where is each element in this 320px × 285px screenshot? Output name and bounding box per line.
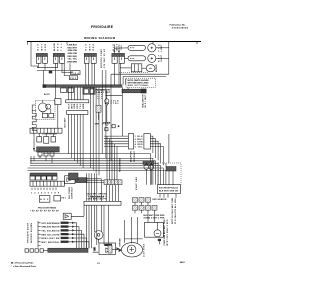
svg-text:0403: 0403 — [180, 261, 186, 264]
svg-text:ARE OPTIONAL: ARE OPTIONAL — [128, 84, 150, 87]
strip drop 5 — [96, 205, 98, 245]
heater plug small — [96, 105, 101, 112]
ice fan motor — [94, 231, 103, 240]
freezer light holder — [128, 45, 146, 50]
svg-text:P12 4: P12 4 — [72, 72, 80, 75]
svg-text:RED ICE CHUTE: RED ICE CHUTE — [41, 234, 60, 236]
svg-text:A2 P9: A2 P9 — [44, 93, 50, 96]
field splice a — [117, 247, 120, 250]
svg-text:* = Non-Illustrated Parts: * = Non-Illustrated Parts — [11, 265, 37, 268]
harness label list — [68, 45, 78, 64]
relay row cell 4 — [152, 205, 157, 210]
evaporator fan motor shell — [121, 243, 142, 257]
wire P4 up A — [113, 45, 115, 54]
junction dot P4 b — [118, 50, 120, 52]
svg-text:BLK/W: BLK/W — [54, 43, 56, 51]
svg-text:NEU WHT: NEU WHT — [68, 47, 78, 49]
ladder wire 6 — [28, 168, 164, 185]
svg-text:RED RED: RED RED — [68, 56, 78, 58]
svg-text:P5 1: P5 1 — [62, 198, 67, 200]
heater row cell 3 — [146, 198, 151, 203]
wire P1 B down — [44, 63, 46, 70]
connector P4 plug hatch — [112, 53, 125, 56]
start relay — [49, 113, 54, 117]
wire arrow out — [71, 205, 84, 216]
wire P1 A down — [38, 63, 40, 67]
pin labels — [68, 103, 85, 109]
wire corner fan a — [120, 75, 122, 85]
note box dashed — [126, 78, 156, 87]
mid plug bar — [104, 180, 122, 185]
connector P2 terminal B — [60, 56, 65, 63]
wire pins down — [40, 156, 52, 163]
svg-text:5995538642: 5995538642 — [172, 27, 189, 30]
wire fan feeds — [148, 213, 159, 244]
wire P3 A2 down — [87, 63, 89, 85]
wire P2 A down — [55, 63, 57, 70]
wire run h1 — [38, 63, 58, 67]
wire receptacle drops — [160, 194, 176, 198]
relay row cell 1 — [133, 205, 138, 210]
wire from P4 box down — [120, 63, 122, 74]
wire P3 B down — [91, 63, 93, 85]
svg-text:DEF TIMER: DEF TIMER — [69, 186, 71, 199]
wire P4 A down — [113, 63, 115, 85]
timer pin text — [135, 136, 144, 148]
timer input wire 3 — [104, 141, 128, 180]
svg-text:GRN: GRN — [95, 124, 100, 126]
right riser 2 — [92, 87, 94, 170]
plug strip end cap — [141, 89, 147, 94]
auger motor — [146, 65, 155, 72]
svg-text:ORN ORN: ORN ORN — [68, 53, 78, 55]
strip drop 6 — [101, 205, 103, 232]
defrost timer left block — [128, 134, 133, 149]
overload protector — [42, 113, 47, 117]
svg-text:BRN LIGHT SW: BRN LIGHT SW — [41, 238, 59, 240]
door fanout row 3 — [41, 229, 73, 232]
svg-text:RED: RED — [77, 103, 79, 109]
wire blob drop — [43, 70, 45, 84]
strip drop 7 — [103, 205, 105, 244]
svg-text:ADAPTIVE: ADAPTIVE — [130, 150, 133, 162]
dashed drop a — [97, 90, 99, 99]
comb wire 4 — [76, 87, 78, 100]
timer fanout 3 — [150, 141, 158, 160]
door dashed separator — [30, 210, 60, 212]
comb lower 5 — [79, 114, 81, 165]
comb wire 2 — [71, 87, 73, 100]
svg-text:YEL: YEL — [80, 103, 82, 109]
svg-text:21: 21 — [97, 263, 100, 265]
wire caps — [39, 133, 53, 136]
splice icon c — [118, 125, 120, 127]
defrost thermostat b — [149, 165, 154, 170]
svg-text:ORN: ORN — [74, 103, 76, 109]
timer fanout 2 — [150, 139, 155, 158]
plug pin c — [50, 152, 54, 156]
run capacitor — [37, 137, 42, 142]
terminal strip left — [30, 128, 62, 133]
plug pin a — [38, 152, 42, 156]
ladder wire 2 — [30, 156, 153, 185]
wire lamp1 to right rail — [156, 47, 169, 49]
wire feed right — [105, 87, 122, 136]
defrost thermostat cap — [143, 162, 154, 165]
wire P3 B2 down — [94, 63, 96, 85]
connector P2 plug hatch — [53, 53, 64, 56]
plug pin b — [44, 152, 48, 156]
svg-text:P20 RECEPTACLE: P20 RECEPTACLE — [159, 186, 179, 189]
control box A — [39, 196, 50, 203]
svg-text:1 2 3 4 5 6 7 8 9: 1 2 3 4 5 6 7 8 9 — [31, 192, 60, 195]
header rule — [27, 41, 201, 43]
compressor motor — [38, 103, 47, 112]
ladder wire 7 — [28, 170, 166, 184]
connector P3 terminal A — [84, 56, 89, 63]
motor lead plug — [108, 245, 112, 253]
strip drop 4 — [94, 205, 96, 232]
svg-text:WHT: WHT — [71, 103, 73, 109]
svg-text:4 RED: 4 RED — [135, 143, 144, 146]
connector P1 labels — [38, 43, 48, 50]
tall riser 6 — [105, 70, 107, 158]
svg-text:WHT NEUTRAL: WHT NEUTRAL — [41, 241, 60, 244]
wire corner fan d — [127, 87, 129, 89]
svg-text:ORN AUG MOTOR: ORN AUG MOTOR — [41, 226, 60, 229]
takeoff plug hatch — [76, 178, 88, 183]
right riser 3 — [95, 87, 97, 173]
wire lead link — [43, 250, 47, 252]
comb wire 1 — [68, 87, 70, 100]
strip drop 3 — [91, 205, 93, 248]
secondary plug strip — [122, 89, 144, 93]
wire therm down — [99, 106, 107, 123]
ladder wire 1 — [43, 154, 150, 185]
pin number comb — [32, 188, 56, 190]
wire lamp1 left — [114, 47, 128, 49]
svg-text:6 YEL: 6 YEL — [135, 147, 144, 149]
svg-text:WIRING DIAGRAM: WIRING DIAGRAM — [84, 36, 116, 40]
wire lamp feed right — [168, 42, 170, 75]
svg-text:CONN BLK: CONN BLK — [72, 186, 74, 199]
connector P1 terminal B — [43, 56, 48, 63]
wire lamp2 left — [125, 57, 129, 59]
ladder wire 3 — [30, 156, 156, 185]
cold control thermostat — [105, 99, 109, 103]
wire mid plug drops — [107, 185, 119, 202]
door fanout row 5 — [41, 237, 73, 240]
timer input wire 4 — [104, 144, 128, 180]
connector P3 plug hatch — [84, 53, 96, 56]
refrigerator light bulb — [148, 54, 156, 62]
svg-text:AUGER: AUGER — [155, 64, 158, 72]
compressor dashed enclosure — [36, 100, 56, 119]
splice icon b — [112, 125, 115, 128]
wire switch to motor — [142, 67, 146, 69]
svg-text:CTRL: CTRL — [111, 103, 120, 105]
freezer light bulb — [148, 44, 156, 52]
svg-text:WHT: WHT — [41, 43, 43, 50]
wire P2 B2 down — [64, 63, 69, 75]
row labels dense — [144, 215, 166, 220]
svg-text:DEF HEATER: DEF HEATER — [153, 198, 168, 201]
wire takeoff fan — [87, 179, 109, 183]
svg-text:120 VAC 60 HZ: 120 VAC 60 HZ — [103, 48, 106, 68]
tall riser 5 — [101, 70, 103, 154]
board connector lower — [67, 111, 88, 115]
separate plug right — [69, 173, 79, 180]
tall riser 7 — [110, 74, 112, 161]
svg-text:RED: RED — [93, 44, 95, 51]
svg-text:FRIGIDAIRE: FRIGIDAIRE — [91, 25, 114, 29]
comb lower 6 — [82, 114, 84, 168]
comb wire 3 — [73, 87, 75, 100]
wire P2 B down — [62, 63, 72, 72]
wire stub below rule right-mid — [152, 42, 154, 45]
svg-text:PLG 2X4 HTR ALL MDL: PLG 2X4 HTR ALL MDL — [174, 197, 177, 224]
connector J3 box — [70, 76, 78, 80]
wire corner fan c — [125, 79, 127, 85]
wire row links — [135, 202, 155, 213]
connector P1 terminal A — [36, 56, 41, 63]
compressor start winding — [46, 104, 51, 109]
svg-text:◆ = Field-wiring Pads: ◆ = Field-wiring Pads — [10, 262, 34, 265]
dashed defrost line — [119, 71, 149, 73]
refrigerator light holder — [128, 56, 146, 61]
staircase wires to plug — [74, 223, 89, 248]
lead marks left — [25, 249, 28, 252]
evaporator fan motor — [127, 245, 136, 254]
wire aux drop — [56, 70, 58, 128]
dashed drop b — [101, 90, 103, 99]
connector P4 terminal A — [112, 56, 117, 63]
svg-text:BLK WHT GRN OR: BLK WHT GRN OR — [159, 191, 179, 193]
svg-text:GRN: GRN — [121, 45, 123, 51]
wire P3 A down — [85, 63, 87, 85]
cabinet plug hatch — [37, 147, 60, 152]
wire left drop — [31, 42, 38, 67]
board connector upper — [66, 100, 89, 103]
connector P1 plug hatch — [36, 53, 47, 56]
svg-text:MTR 115V 60HZ 2 SPD: MTR 115V 60HZ 2 SPD — [167, 219, 169, 246]
svg-text:EVP FAN: EVP FAN — [118, 238, 121, 247]
wire switch left — [120, 67, 131, 69]
wire stub below rule right — [196, 42, 198, 45]
field splice marks — [93, 247, 99, 253]
takeoff arrow box — [65, 176, 76, 184]
wire corner fan b — [123, 77, 166, 85]
wire junction — [34, 133, 37, 151]
wire run h2 — [37, 63, 70, 70]
svg-text:WHT: WHT — [117, 43, 119, 50]
comb lower 3 — [73, 114, 75, 160]
door fanout row 4 — [41, 233, 73, 236]
icemaker plug hatch — [166, 167, 176, 172]
comb wire 6 — [82, 87, 84, 100]
door switch block — [131, 64, 142, 72]
right riser 1 — [89, 87, 91, 168]
svg-text:WTR VLV BLK WHT GRN: WTR VLV BLK WHT GRN — [172, 197, 174, 224]
condenser fan cap — [51, 137, 56, 142]
timer fanout 5 — [150, 146, 163, 165]
junction board box — [158, 185, 181, 194]
connector P2 terminal A — [53, 56, 58, 63]
comb lower 4 — [76, 114, 78, 163]
strip drop 2 — [88, 205, 90, 248]
interface strip — [30, 181, 65, 186]
wire long lower rail — [111, 73, 169, 75]
right riser 4 — [98, 87, 100, 175]
svg-text:YEL: YEL — [61, 43, 63, 51]
svg-text:BLK: BLK — [38, 44, 40, 51]
wire heater top — [32, 105, 35, 111]
condenser fan motor — [154, 230, 161, 237]
door terminal spine — [38, 221, 41, 248]
ladder wire 4 — [30, 156, 158, 185]
wire compressor top — [43, 100, 51, 113]
relay row cell 2 — [139, 205, 144, 210]
dispenser arrow box — [63, 213, 71, 219]
connector P2 labels — [54, 43, 63, 51]
svg-text:2 BLK 1 WHT: 2 BLK 1 WHT — [96, 92, 111, 94]
ptc starter — [44, 137, 49, 144]
svg-text:FREEZER DOOR: FREEZER DOOR — [28, 222, 30, 243]
svg-text:FRZ DOOR HINGE: FRZ DOOR HINGE — [38, 208, 57, 210]
door fanout row 2 — [41, 225, 73, 228]
comb wire 5 — [79, 87, 81, 100]
wire lamp2 to bulb — [156, 57, 169, 59]
svg-text:BLK / WHT: BLK / WHT — [145, 94, 147, 108]
door plug strip — [48, 248, 88, 252]
heater row cell 1 — [133, 198, 138, 203]
svg-text:GRY BRN TAN PK: GRY BRN TAN PK — [88, 197, 108, 200]
svg-text:BLK: BLK — [68, 103, 70, 109]
junction dot P4 a — [114, 50, 116, 52]
timer fanout 1 — [150, 136, 153, 153]
door fanout row 1 — [41, 222, 73, 225]
svg-text:GRY DISPENSER: GRY DISPENSER — [41, 223, 60, 225]
optional dashed enclosure — [158, 163, 181, 185]
timer input wire 1 — [104, 136, 128, 180]
relay aux box — [55, 99, 61, 105]
svg-text:YEL SOLENOID: YEL SOLENOID — [41, 231, 60, 233]
junction cluster — [49, 71, 52, 74]
connector P3 labels — [86, 43, 96, 50]
svg-text:WHT: WHT — [89, 43, 91, 50]
field splice b — [119, 249, 122, 252]
svg-text:Publication No.: Publication No. — [170, 24, 186, 27]
junction dot — [33, 148, 35, 150]
svg-text:BRN: BRN — [83, 103, 85, 109]
svg-text:COND FAN BLK WHT GRN: COND FAN BLK WHT GRN — [163, 219, 166, 246]
wire evap rail — [124, 239, 142, 243]
connector P3 terminal B — [91, 56, 96, 63]
timer input wire 5 — [104, 146, 128, 179]
ground — [103, 122, 111, 125]
wire thermostats — [146, 163, 151, 185]
cabinet strip lower — [84, 201, 121, 205]
wire im drop — [166, 134, 173, 185]
bus end cap — [43, 84, 46, 88]
defrost thermostat a — [144, 165, 149, 170]
timer fanout 4 — [150, 144, 160, 163]
svg-text:P13 2: P13 2 — [70, 78, 77, 80]
strip drop 1 — [86, 205, 88, 248]
svg-text:COMPRESSOR: COMPRESSOR — [42, 133, 58, 135]
wire h feed thermostat — [95, 89, 105, 91]
ice maker module — [99, 243, 116, 255]
comb lower 1 — [68, 114, 70, 153]
svg-text:115V 60HZ: 115V 60HZ — [144, 243, 146, 257]
control box B — [54, 196, 61, 201]
relay row cell 3 — [146, 205, 151, 210]
splice icon a — [105, 128, 108, 131]
defrost timer right block — [144, 134, 150, 149]
cabinet connector row — [30, 173, 57, 176]
svg-text:DEFROST: DEFROST — [134, 150, 136, 162]
strip risers — [87, 173, 102, 201]
door fanout row 6 — [41, 241, 73, 244]
connector J2 box — [71, 71, 80, 75]
connector block under bus — [61, 88, 67, 92]
wire stub below rule mid — [66, 42, 68, 45]
strip drop 8 — [108, 205, 110, 244]
svg-text:ORN: ORN — [45, 44, 47, 51]
svg-text:LINE BLK: LINE BLK — [68, 45, 78, 47]
svg-text:FRZ HARNESS: FRZ HARNESS — [119, 157, 122, 172]
wire lead — [112, 248, 121, 250]
connector P4 terminal B — [119, 56, 124, 63]
defrost heater meander — [32, 111, 36, 132]
comb lower 2 — [71, 114, 73, 158]
main harness bus — [43, 85, 122, 88]
wire P4 B down — [118, 63, 120, 85]
timer input wire 2 — [104, 139, 128, 180]
svg-text:EVAP FAN: EVAP FAN — [135, 176, 138, 190]
svg-text:BLK WHT: BLK WHT — [64, 117, 66, 128]
condenser fan frame — [145, 222, 164, 237]
svg-text:ADC: ADC — [40, 198, 49, 201]
wire P4 up B — [118, 45, 120, 54]
ladder wire 5 — [30, 166, 161, 185]
svg-text:BRN BRN: BRN BRN — [68, 61, 78, 63]
svg-text:SERVICE CORD: SERVICE CORD — [101, 48, 103, 68]
heater row cell 2 — [139, 198, 144, 203]
wire evap feeds — [124, 217, 137, 239]
svg-text:GRN GRN: GRN GRN — [68, 50, 78, 52]
svg-text:RED: RED — [58, 43, 60, 51]
fan motor terminal — [158, 239, 161, 241]
svg-text:WIRING SHOWN: WIRING SHOWN — [31, 222, 33, 243]
svg-text:YEL YEL: YEL YEL — [68, 59, 78, 61]
svg-text:BLK: BLK — [86, 44, 88, 51]
connector P4 labels — [113, 43, 123, 50]
wire stub below rule left — [26, 42, 28, 45]
